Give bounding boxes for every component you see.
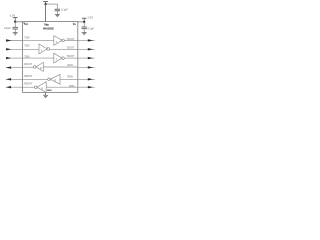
capacitor C1 0.1uF [13,26,18,28]
op-amp U1A driver [54,36,62,46]
arrow out R1OUT [6,66,11,68]
wire T1IN [6,40,23,42]
svg-text:T1IN: T1IN [24,37,29,40]
svg-text:T2IN: T2IN [24,45,29,48]
wire: cap C1 to ground [14,29,16,32]
wire: pin to buffer U1C [23,57,54,59]
op-amp U1C driver [54,53,62,63]
wire: cap C2 to ground [56,11,58,14]
op-amp U1D receiver [33,66,36,69]
svg-text:T1OUT: T1OUT [66,38,74,41]
wire: left bar down to node [14,18,16,22]
svg-text:T3OUT: T3OUT [66,55,74,58]
wire: buffer to pin T3OUT [64,57,78,59]
arrow out T1OUT [88,39,93,41]
node: left supply junction dot [14,21,16,23]
supply rail bar 3.3V (top left) [13,16,18,19]
wire: pin to receiver U1E [23,78,48,80]
arrow out T2OUT [88,48,93,50]
wire: pin to receiver U1F [23,86,35,88]
wire: cap C3 to ground [83,29,85,32]
wire: chip right VCC pin to node [78,21,84,23]
wire: pin to buffer U1A [23,39,54,41]
op-amp U1E receiver [48,78,51,81]
wire: top bar to node [45,2,47,4]
wire R2IN external [78,78,95,80]
ground (bottom) [43,94,48,96]
svg-text:R1OUT: R1OUT [24,63,33,66]
wire: node down to chip VCC pin [45,4,47,21]
wire T3IN [6,57,23,59]
wire: pin to buffer U1B [23,48,40,50]
arrow out R2IN [88,78,93,80]
svg-text:T2OUT: T2OUT [66,47,74,50]
svg-text:R: R [55,79,57,82]
wire R1IN external [78,66,95,68]
node: VCC junction dot [44,3,46,5]
arrow out R2OUT [6,78,11,80]
svg-text:R3IN: R3IN [69,85,75,88]
svg-text:R: R [40,67,42,70]
arrow into pin T2IN [6,48,11,50]
wire R3OUT external [6,86,23,88]
IC body U1 [23,22,78,93]
op-amp U1F receiver [35,86,38,89]
wire R3IN external [78,86,95,88]
wire: node down to cap C3 [83,22,85,27]
wire: GND pin to ground (bottom) [45,93,47,95]
capacitor C3 0.1uF [82,26,87,28]
wire: right bar down to node [83,19,85,22]
wire: buffer to pin T2OUT [49,48,78,50]
arrow out T3OUT [88,57,93,59]
node: right supply junction dot [83,21,85,23]
supply rail bar VCC (top center) [43,0,48,3]
ground (left) [13,32,18,34]
wire: buffer to pin T1OUT [64,39,78,41]
wire: receiver to pin R2IN [60,78,78,80]
svg-text:R3OUT: R3OUT [24,82,33,85]
wire: receiver to pin R1IN [43,66,78,68]
background [0,0,100,100]
ground (top center) [55,14,60,16]
arrow out R1IN [88,66,93,68]
svg-text:R1IN: R1IN [67,64,73,67]
svg-text:R: R [41,87,43,90]
arrow into pin T1IN [6,39,11,41]
capacitor C2 0.1uF [55,8,61,10]
arrow out R3OUT [6,86,11,88]
wire R1OUT external [6,67,23,69]
arrow into pin T3IN [6,57,11,59]
wire T2IN [6,48,23,50]
svg-text:GND: GND [47,90,52,92]
svg-text:R2IN: R2IN [67,75,73,78]
wire: pin to receiver U1D [23,66,34,68]
wire T2OUT external [78,48,95,50]
wire: node to bypass cap C2 [46,4,58,9]
ground (right) [82,32,87,34]
wire T3OUT external [78,57,95,59]
arrow out R3IN [88,86,93,88]
wire: node down to cap C1 [14,22,16,27]
supply rail bar 5V (top right) [82,17,87,20]
wire: node to chip left VCC pin [15,21,22,23]
wire R2OUT external [6,78,23,80]
svg-text:R2OUT: R2OUT [24,75,33,78]
svg-text:MAX3232E: MAX3232E [43,27,54,31]
op-amp U1B driver [39,44,47,54]
wire: receiver to pin R3IN [46,86,78,88]
wire T1OUT external [78,39,95,41]
